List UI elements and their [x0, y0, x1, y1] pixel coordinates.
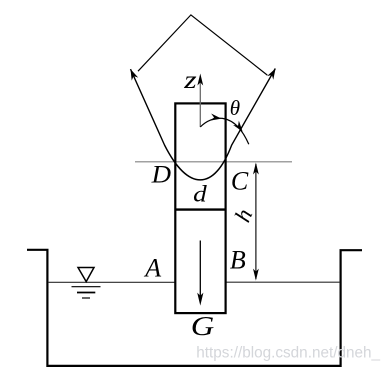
tank walls [27, 250, 362, 366]
water surface line left segment [48, 281, 175, 283]
svg-text:B: B [230, 245, 246, 274]
waterline through D and C (gray) [135, 161, 292, 163]
svg-text:z: z [183, 67, 197, 94]
h dimension line [255, 164, 257, 279]
theta arc [200, 118, 249, 144]
svg-text:A: A [143, 253, 161, 282]
right curve arrowhead [267, 67, 279, 80]
h dimension bottom arrowhead [253, 269, 259, 281]
roof lines from apex [138, 15, 267, 75]
theta arc arrowhead up-left-pointing [233, 121, 245, 134]
svg-text:d: d [193, 182, 207, 207]
h dimension top arrowhead [253, 163, 259, 175]
big U curve through D and C [131, 69, 276, 180]
svg-text:D: D [151, 162, 171, 189]
svg-text:G: G [191, 311, 215, 341]
svg-text:C: C [231, 166, 249, 195]
water surface nabla symbol [72, 268, 101, 299]
water surface line right segment [226, 281, 340, 283]
svg-text:θ: θ [230, 96, 240, 120]
svg-text:https://blog.csdn.net/dneh_: https://blog.csdn.net/dneh_ [196, 345, 380, 362]
block (floating body) [175, 103, 225, 313]
block inner line [175, 208, 225, 210]
z axis arrowhead [197, 74, 203, 86]
left curve arrowhead [127, 68, 138, 81]
G arrow [199, 241, 201, 299]
z axis [199, 81, 201, 127]
theta arc arrowhead right-pointing [210, 114, 222, 123]
